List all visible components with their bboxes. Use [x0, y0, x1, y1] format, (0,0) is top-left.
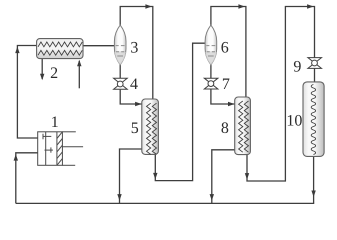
svg-text:6: 6: [221, 40, 229, 57]
svg-text:7: 7: [222, 76, 230, 93]
svg-text:5: 5: [131, 120, 139, 137]
svg-text:2: 2: [50, 65, 58, 82]
svg-text:4: 4: [130, 76, 138, 93]
svg-text:10: 10: [286, 113, 302, 130]
svg-text:1: 1: [51, 114, 59, 131]
svg-text:8: 8: [221, 120, 229, 137]
svg-text:9: 9: [293, 58, 301, 75]
svg-text:3: 3: [130, 40, 138, 57]
